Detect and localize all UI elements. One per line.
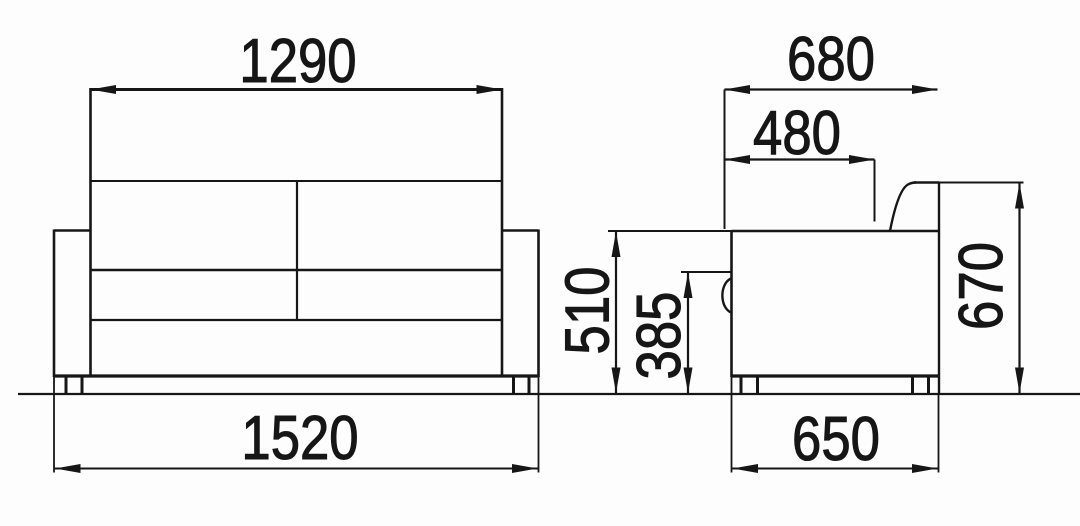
side box front (left) edge bbox=[730, 230, 733, 377]
680 dimension bbox=[725, 88, 938, 90]
left armrest outer edge bbox=[53, 230, 56, 378]
right armrest outer edge bbox=[537, 230, 540, 378]
seat center divider bbox=[296, 181, 298, 320]
side box top (armrest top) bbox=[732, 230, 940, 233]
svg-text:480: 480 bbox=[753, 99, 841, 168]
seat seam lower bbox=[91, 319, 503, 321]
top edge of backrest / 1290 dimension line bbox=[91, 88, 503, 91]
backrest front curve bbox=[890, 183, 916, 232]
backrest top edge bbox=[914, 181, 939, 183]
front right foot bbox=[512, 376, 515, 394]
side box back (right) edge / backrest back bbox=[938, 182, 940, 394]
385 dimension bbox=[687, 273, 689, 394]
front left foot bbox=[65, 376, 68, 394]
svg-text:1520: 1520 bbox=[241, 404, 358, 473]
1290 dimension arrows bbox=[91, 85, 117, 94]
svg-text:1290: 1290 bbox=[239, 27, 356, 96]
480 dimension bbox=[725, 158, 875, 160]
seat seam upper bbox=[91, 269, 503, 271]
1520 dimension bbox=[53, 376, 55, 473]
side box bottom bbox=[732, 374, 940, 377]
side rear leg bbox=[911, 376, 914, 394]
svg-text:680: 680 bbox=[787, 25, 875, 94]
right armrest top bbox=[502, 229, 539, 232]
sofa bottom edge bbox=[54, 374, 539, 377]
svg-text:670: 670 bbox=[947, 242, 1016, 330]
seat cushion front arc bbox=[722, 279, 731, 313]
svg-text:510: 510 bbox=[554, 267, 623, 355]
svg-text:650: 650 bbox=[792, 405, 880, 474]
left armrest top bbox=[54, 229, 91, 232]
backrest left edge bbox=[89, 88, 92, 377]
side front leg bbox=[740, 376, 743, 394]
backrest bottom line bbox=[91, 180, 503, 182]
backrest right edge bbox=[501, 88, 504, 377]
650 dimension bbox=[732, 376, 939, 473]
svg-text:385: 385 bbox=[625, 292, 694, 380]
510 dimension bbox=[615, 232, 617, 394]
670 dimension bbox=[939, 182, 1024, 184]
